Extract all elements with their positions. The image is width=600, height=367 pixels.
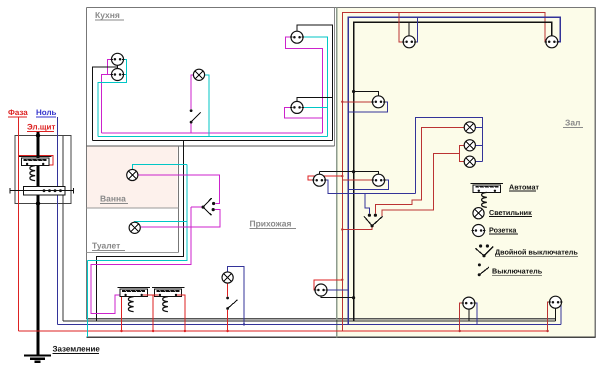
main thick line to ground <box>37 132 40 355</box>
svg-text:Ноль: Ноль <box>36 108 57 117</box>
switch S3 hallway <box>226 297 229 300</box>
socket Z2 <box>545 36 559 48</box>
wire: bath bundle black down + across + down to rail <box>97 141 184 321</box>
svg-text:Эл.щит: Эл.щит <box>27 123 55 132</box>
terminal strip in panel <box>23 186 65 195</box>
wire: neutral (blue) vertical from Ноль label down <box>57 117 59 324</box>
svg-text:Зал: Зал <box>565 118 580 128</box>
light B1 <box>127 169 138 180</box>
socket Z3 <box>371 96 385 108</box>
wire: K3 cyan <box>205 75 209 137</box>
breaker A3 <box>152 288 185 312</box>
socket HS2 <box>312 174 326 186</box>
wire: H1 red + switch S3 <box>227 284 229 297</box>
wall: kitchen right <box>334 8 336 147</box>
wire: red ring <box>342 13 546 332</box>
double switch S2 (bath/toilet) <box>203 198 212 215</box>
wire: Z4 blue return <box>348 180 388 190</box>
wire: kitchen cyan rail <box>98 135 328 137</box>
wire: red right of breaker A3 <box>177 295 185 331</box>
wire: Z1 black stub <box>408 22 410 36</box>
wall: apartment top <box>87 7 596 9</box>
socket HS1 <box>314 284 328 296</box>
wire: bath bundle magenta down + across + to breaker A2 <box>91 207 191 313</box>
wire: dswitch apex red feed <box>342 227 372 230</box>
wall: apartment left <box>86 8 88 319</box>
wire: Z10 socket bottom <box>548 302 550 331</box>
wall: bath/toilet right <box>177 146 179 253</box>
wire: Z9 socket bottom <box>460 303 463 331</box>
wall: apartment right <box>594 8 596 338</box>
legend switch <box>478 263 481 266</box>
svg-text:Прихожая: Прихожая <box>250 219 292 229</box>
wire: K5/K6 cyan vertical <box>303 37 328 136</box>
wire: bath bundle cyan down + across + down to bottom <box>88 165 188 261</box>
wire: K2 magenta <box>101 75 112 133</box>
wire: breaker A2 left drop to phase rail <box>121 295 123 331</box>
socket K6 <box>290 101 304 113</box>
wire: Z4 red <box>342 179 372 181</box>
socket Z10 <box>548 296 562 308</box>
light H1 <box>222 272 233 283</box>
wire: phase (red) vertical from Фаза label down to bottom rail <box>18 117 20 331</box>
wire: Z1 navy drop <box>415 17 418 42</box>
wire: T1 cyan <box>135 221 187 223</box>
wire: hall socket HS2 (left of wall) <box>308 176 342 180</box>
legend light <box>473 208 484 219</box>
socket Z4 <box>371 174 385 186</box>
switch S1 kitchen <box>190 109 193 112</box>
wire: hall mid-left socket HS1 <box>314 280 342 290</box>
wire: bath switch lower to T1 <box>141 210 220 227</box>
wire: B1 magenta to switch <box>138 175 219 204</box>
wall: toilet bottom <box>87 252 179 254</box>
light Z6 <box>464 140 475 151</box>
wire: K1/K2 black <box>117 65 119 69</box>
wire: Z3 red <box>342 101 372 103</box>
svg-text:Заземление: Заземление <box>53 345 101 354</box>
svg-text:Выключатель: Выключатель <box>492 267 543 276</box>
socket K2 <box>110 69 124 81</box>
ground symbol <box>24 354 51 356</box>
svg-text:Туалет: Туалет <box>92 241 120 251</box>
light T1 <box>129 222 140 233</box>
wire: Z1 red drop <box>399 13 403 42</box>
wire: bath switch apex feed <box>191 206 203 208</box>
wall: bottom long <box>87 336 596 338</box>
panel box <box>15 135 71 203</box>
socket Z9 <box>462 297 476 309</box>
svg-text:Автомат: Автомат <box>509 182 539 191</box>
wire: PE dark vertical from panel down <box>62 136 64 321</box>
socket K5 <box>290 31 304 43</box>
wire: K6 magenta loop <box>285 107 323 117</box>
wall: hall left <box>336 8 338 338</box>
legend socket <box>471 225 485 237</box>
wire: Z4 black <box>354 172 379 175</box>
wire: kitchen black rail <box>92 140 332 142</box>
bathroom fill <box>87 147 178 209</box>
junction dots on hall red ring <box>341 101 343 103</box>
socket Z1 <box>402 36 416 48</box>
wire: blue steps to dswitch left dot <box>365 194 369 214</box>
wall: bath/toilet divider <box>87 207 179 209</box>
wire: K5 magenta loop <box>286 37 323 133</box>
wire: phase branch into breaker <box>19 156 53 165</box>
svg-text:Светильник: Светильник <box>489 208 532 217</box>
svg-text:Розетка: Розетка <box>489 225 517 234</box>
svg-text:Ванна: Ванна <box>100 194 126 204</box>
svg-text:Двойной выключатель: Двойной выключатель <box>495 248 578 257</box>
wire: H1 blue <box>228 267 244 325</box>
wire: black PE C-ring <box>354 22 552 321</box>
light K3 <box>193 69 204 80</box>
wire: phase red bottom rail <box>19 330 548 332</box>
wire: kitchen magenta rail <box>101 132 322 134</box>
light Z5 <box>464 122 475 133</box>
wall: kitchen bottom <box>87 145 335 147</box>
wire: K5 K6 black <box>297 25 333 141</box>
double switch S4 hall <box>364 216 382 225</box>
wire: K3 magenta + switch S1 <box>191 75 193 109</box>
breaker U1 in panel <box>19 157 52 181</box>
wire: red-A light1 <box>375 127 464 213</box>
breaker A2 <box>118 288 151 312</box>
svg-text:Фаза: Фаза <box>8 108 28 117</box>
wire: B1 cyan <box>132 165 187 170</box>
hall (Зал) room fill <box>337 8 596 337</box>
socket K1 <box>110 53 124 65</box>
wire: K1/K2 cyan <box>98 59 126 136</box>
wire: navy ring <box>348 17 560 324</box>
wire: PE dark bottom rail <box>63 320 556 322</box>
wire: Z3 blue return <box>348 102 388 112</box>
junction dot blue <box>243 323 245 325</box>
wire: K6 cyan stub <box>303 106 328 108</box>
svg-text:Кухня: Кухня <box>95 10 120 20</box>
legend breaker <box>471 183 504 207</box>
wire: lights blue feed <box>415 117 482 193</box>
wire: neutral blue bottom rail <box>58 323 561 325</box>
wire: K1 magenta <box>108 59 113 74</box>
wire: red between breakers down <box>143 294 159 296</box>
wire: Z3 black <box>354 92 379 96</box>
wire: red-B bracket lights 2-3 <box>460 145 465 161</box>
light Z7 <box>464 156 475 167</box>
legend double switch <box>475 247 493 256</box>
junction dots on phase rail <box>120 330 122 332</box>
wall: bottom left part <box>87 318 557 320</box>
